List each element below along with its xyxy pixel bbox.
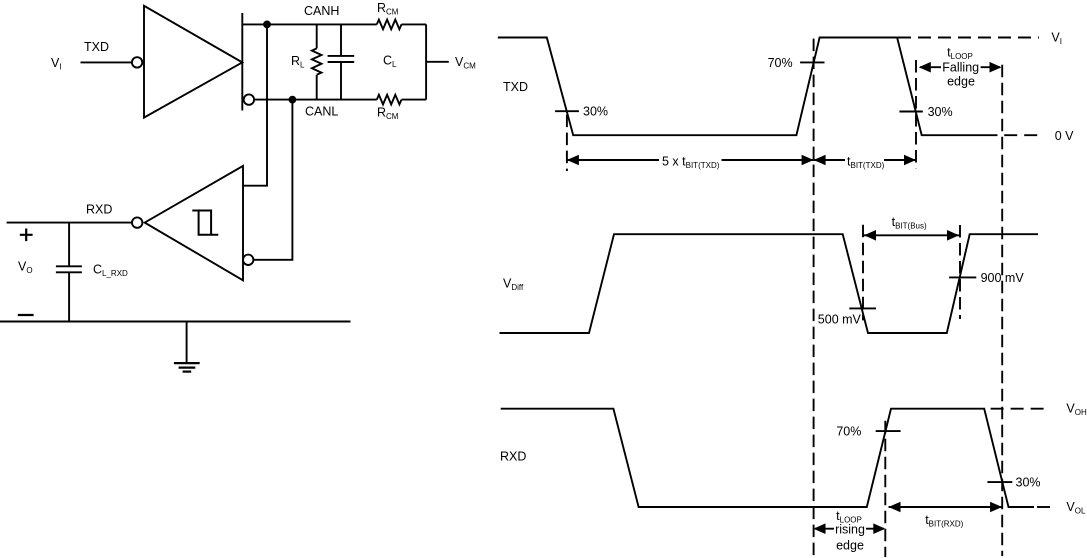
svg-text:TXD: TXD	[84, 40, 109, 54]
dashed marker line at TXD 30% fall	[566, 115, 568, 171]
arrow 5 x tBIT(TXD)	[567, 155, 814, 166]
svg-text:tBIT(Bus): tBIT(Bus)	[892, 215, 927, 231]
svg-text:RXD: RXD	[500, 449, 526, 463]
wire CANH	[242, 23, 376, 25]
svg-text:VOH: VOH	[1066, 401, 1087, 417]
svg-text:tLOOP: tLOOP	[947, 46, 973, 62]
receiver hysteresis symbol	[192, 211, 218, 235]
svg-text:RCM: RCM	[377, 1, 399, 17]
RXD waveform	[501, 409, 1034, 507]
driver inverting output bubble	[244, 94, 254, 104]
svg-text:CANH: CANH	[304, 4, 339, 18]
svg-text:5 x tBIT(TXD): 5 x tBIT(TXD)	[662, 154, 720, 170]
wire TXD input	[81, 61, 132, 63]
svg-text:500 mV: 500 mV	[818, 312, 862, 326]
resistor RL	[312, 24, 322, 99]
svg-text:70%: 70%	[836, 425, 861, 439]
svg-text:VI: VI	[1051, 31, 1062, 47]
arrow tLOOP falling right	[981, 62, 1002, 73]
svg-text:edge: edge	[836, 539, 864, 553]
wire RXD to CL_RXD	[68, 223, 70, 267]
svg-text:RL: RL	[291, 54, 305, 70]
dashed marker line at TXD 30% fall 2	[915, 60, 917, 168]
svg-text:900 mV: 900 mV	[981, 271, 1025, 285]
svg-text:VDiff: VDiff	[503, 276, 524, 292]
arrow tLOOP falling left	[919, 62, 941, 73]
arrow tBIT(TXD)	[814, 155, 916, 166]
wire CANH down to receiver input	[243, 24, 267, 185]
tick 30% second falling edge	[899, 111, 922, 113]
svg-text:VI: VI	[51, 56, 62, 72]
receiver output bubble	[132, 217, 142, 227]
driver input bubble	[132, 57, 142, 67]
wire ground rail	[0, 321, 351, 323]
resistor RCM (bottom)	[377, 95, 402, 105]
svg-text:30%: 30%	[583, 105, 608, 119]
wire CANL down to receiver inverting input	[253, 100, 292, 260]
level line VI dashed	[898, 37, 1039, 39]
capacitor (bus load)	[328, 24, 355, 99]
level line VOH dashed	[991, 408, 1049, 410]
svg-text:30%: 30%	[1016, 476, 1041, 490]
wire CANH to right rail	[402, 23, 427, 25]
VDiff waveform	[500, 234, 1039, 333]
svg-text:VOL: VOL	[1066, 500, 1086, 516]
ground	[174, 322, 200, 372]
level line 0V dashed	[1004, 134, 1040, 136]
arrow tBIT(RXD)	[889, 502, 1003, 513]
svg-text:tBIT(RXD): tBIT(RXD)	[925, 513, 963, 529]
tick 30% RXD	[987, 481, 1012, 483]
tick 900 mV	[949, 276, 976, 278]
driver U1 (CAN driver triangle)	[144, 6, 242, 118]
svg-text:edge: edge	[947, 74, 975, 88]
dashed marker line at RXD 70% rise	[884, 421, 886, 557]
resistor RCM (top)	[377, 20, 402, 30]
wire VCM stub	[426, 61, 449, 63]
svg-text:CL_RXD: CL_RXD	[93, 263, 128, 279]
node CANL junction dot	[289, 96, 297, 104]
plus sign	[20, 229, 33, 242]
svg-text:TXD: TXD	[503, 80, 528, 94]
capacitor CL_RXD	[56, 266, 82, 321]
TXD waveform	[498, 38, 998, 136]
level line VOL dashed	[1037, 506, 1051, 508]
svg-text:70%: 70%	[768, 56, 793, 70]
dashed marker line at TXD 70% rise (full height)	[813, 39, 815, 556]
arrow tLOOP rising right	[866, 523, 885, 534]
svg-text:Falling: Falling	[942, 61, 979, 75]
driver output bar	[241, 13, 243, 111]
dashed marker line at RXD 30% fall (full height)	[1001, 65, 1003, 556]
node CANH junction dot	[263, 21, 271, 29]
svg-text:rising: rising	[835, 522, 865, 536]
wire RXD output	[7, 222, 132, 224]
minus sign	[18, 314, 34, 316]
svg-text:0 V: 0 V	[1055, 129, 1074, 143]
tick 500 mV	[849, 307, 876, 309]
svg-text:VCM: VCM	[455, 55, 476, 71]
dashed marker line at VDiff 900mV rise	[959, 225, 961, 319]
svg-text:RXD: RXD	[86, 203, 112, 217]
tick 30% first falling edge	[555, 110, 579, 112]
wire CANL	[254, 99, 377, 101]
svg-text:CL: CL	[383, 54, 397, 70]
arrow tLOOP rising left	[814, 523, 835, 534]
svg-text:CANL: CANL	[305, 104, 338, 118]
arrow tBIT(Bus)	[863, 230, 960, 241]
svg-text:RCM: RCM	[377, 106, 399, 122]
wire CANL to right rail	[402, 99, 427, 101]
dashed marker line at VDiff 500mV fall	[862, 225, 864, 321]
tick 70% rising edge	[800, 61, 824, 63]
tick 70% RXD	[876, 430, 901, 432]
receiver inverting input bubble	[243, 255, 253, 265]
svg-text:30%: 30%	[928, 105, 953, 119]
svg-text:VO: VO	[18, 259, 33, 275]
wire right rail	[425, 24, 427, 99]
svg-text:tBIT(TXD): tBIT(TXD)	[847, 154, 885, 170]
receiver U2 (triangle)	[145, 166, 243, 280]
